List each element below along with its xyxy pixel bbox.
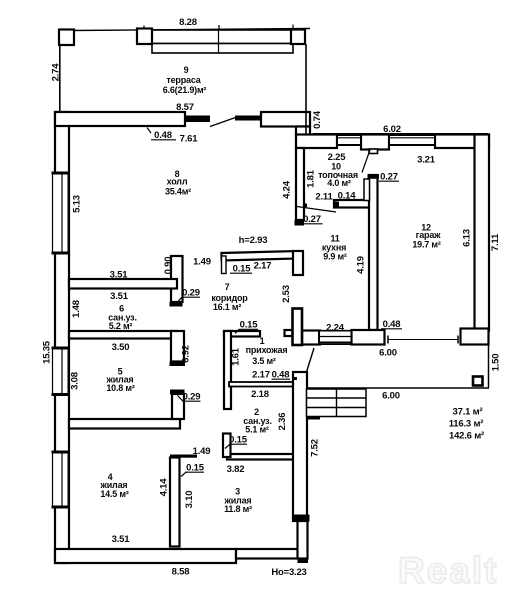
dim tick right [457, 336, 459, 344]
svg-text:3.10: 3.10 [184, 491, 195, 509]
wall wing top A [296, 135, 337, 149]
leader topochnaya door [362, 149, 371, 173]
svg-text:6.6(21.9)м²: 6.6(21.9)м² [163, 85, 207, 95]
svg-text:3.51: 3.51 [110, 291, 129, 302]
wall corridor top stub [293, 251, 303, 275]
svg-text:8.58: 8.58 [172, 567, 190, 578]
svg-text:гараж: гараж [416, 230, 441, 240]
svg-text:терраса: терраса [166, 75, 201, 85]
svg-text:5.2 м²: 5.2 м² [109, 321, 133, 331]
window left W2 [52, 347, 70, 397]
svg-text:37.1 м²: 37.1 м² [453, 407, 483, 418]
cap room5-room4 stub [170, 390, 185, 395]
wall hall top pillar [261, 112, 310, 127]
sill tick kitchen [285, 330, 293, 336]
wall wing pier [361, 135, 389, 150]
svg-text:3.08: 3.08 [70, 372, 81, 390]
wall room5-room4 divider [69, 419, 180, 429]
cap right exterior step [293, 515, 310, 522]
svg-text:4.19: 4.19 [356, 256, 367, 274]
svg-text:2.36: 2.36 [277, 413, 288, 431]
svg-text:1.48: 1.48 [71, 300, 82, 318]
terrace right edge line [305, 44, 307, 134]
svg-text:3.50: 3.50 [112, 342, 130, 353]
hinge tick boiler door [303, 204, 307, 208]
wall entry hall north [224, 331, 260, 337]
svg-text:142.6 м²: 142.6 м² [449, 431, 484, 442]
svg-text:холл: холл [167, 177, 188, 187]
wall room3 top [227, 454, 296, 460]
svg-text:7.61: 7.61 [180, 134, 199, 145]
svg-text:16.1 м²: 16.1 м² [213, 302, 241, 312]
wall step connector [296, 127, 310, 136]
svg-text:11.8 м²: 11.8 м² [224, 504, 252, 514]
svg-text:Но=3.23: Но=3.23 [271, 567, 306, 578]
cap boiler south end [334, 202, 339, 208]
svg-text:1.61: 1.61 [231, 347, 242, 366]
svg-text:2.17: 2.17 [254, 261, 272, 272]
steps south line2 [307, 407, 367, 409]
svg-text:4.0 м²: 4.0 м² [327, 178, 351, 188]
wall kitchen south right [352, 330, 385, 345]
svg-text:0.74: 0.74 [312, 110, 323, 129]
svg-text:6.00: 6.00 [382, 391, 400, 402]
terrace steps row2 [152, 44, 293, 54]
svg-text:6.13: 6.13 [462, 229, 473, 247]
window kitchen south [318, 330, 353, 345]
wall wc-room5 divider [69, 331, 177, 339]
wall left exterior [55, 112, 69, 563]
svg-text:прихожая: прихожая [246, 345, 288, 355]
window wing top 2 [388, 135, 436, 149]
wall bottom exterior [55, 549, 236, 563]
svg-text:9: 9 [184, 65, 189, 75]
wall wing top B [435, 135, 489, 149]
wall hall top [55, 112, 185, 126]
terrace steps row1 [152, 30, 291, 44]
terrace tick 2 [143, 26, 145, 35]
svg-text:3.82: 3.82 [227, 464, 245, 475]
column [473, 377, 483, 386]
svg-text:4.14: 4.14 [159, 478, 170, 497]
svg-text:0.90: 0.90 [163, 257, 174, 275]
door leaf boiler-garage [364, 179, 370, 201]
cap right exterior bottom [298, 558, 309, 564]
svg-text:Realt: Realt [398, 550, 498, 591]
svg-text:1.49: 1.49 [193, 257, 211, 268]
svg-text:2.11: 2.11 [315, 192, 333, 203]
terrace tick 3 [218, 25, 220, 34]
wall right exterior lower [298, 521, 308, 559]
wall boiler south [334, 200, 370, 208]
terrace steps divider [218, 30, 220, 53]
wall room3 top stub [223, 434, 231, 458]
wall garage south [461, 329, 489, 345]
svg-text:19.7 м²: 19.7 м² [412, 240, 440, 250]
door hall-terrace leaf2 [236, 116, 262, 120]
cap boiler west [295, 220, 305, 226]
wall right exterior below door [293, 372, 307, 521]
wing top dim line 6.02 [313, 133, 488, 135]
wall bottom exterior right step [236, 549, 300, 559]
svg-text:h=2.93: h=2.93 [239, 235, 268, 246]
svg-text:7.52: 7.52 [310, 439, 321, 457]
south terrace right edge [488, 345, 490, 388]
svg-text:7: 7 [225, 282, 230, 292]
svg-text:5.13: 5.13 [72, 195, 83, 213]
cap garage west top [368, 174, 380, 179]
south terrace south edge [307, 387, 490, 389]
svg-text:6.00: 6.00 [379, 348, 397, 359]
terrace pillar right [291, 30, 305, 45]
svg-text:5.1 м²: 5.1 м² [245, 425, 269, 435]
door hall-terrace leaf1 [185, 116, 210, 122]
svg-text:116.3 м²: 116.3 м² [449, 419, 484, 430]
steps south line1 [307, 397, 367, 399]
door hall-terrace swing [210, 118, 236, 127]
wall garage west [369, 175, 378, 330]
steps south outline [307, 389, 367, 417]
svg-text:2.18: 2.18 [251, 389, 269, 400]
window left W1 [52, 172, 70, 255]
svg-text:2.74: 2.74 [51, 63, 62, 82]
garage door dim line [388, 339, 458, 341]
svg-text:8.57: 8.57 [176, 102, 194, 113]
svg-text:2.53: 2.53 [281, 285, 292, 303]
wall boiler west [296, 148, 304, 220]
terrace top line [72, 29, 310, 31]
steps south divider [336, 389, 338, 417]
wall room4-room3 divider [170, 458, 180, 547]
cap corridor west seg1 [170, 302, 183, 307]
terrace left edge line [59, 45, 61, 112]
svg-text:3.51: 3.51 [112, 534, 131, 545]
svg-text:10.8 м²: 10.8 м² [106, 383, 134, 393]
cap wc-room5 stub [170, 362, 186, 367]
svg-text:3.5 м²: 3.5 м² [252, 356, 276, 366]
steps south cap [307, 417, 321, 420]
stub corridor top left [222, 256, 227, 274]
cap room4-room3 divider [170, 455, 197, 458]
wall kitchen south left [302, 331, 320, 345]
window wing top 1 [336, 135, 362, 149]
corner notch kitchen-garage [380, 331, 384, 335]
wall room1-room2 divider [229, 382, 293, 387]
wall entry hall west [224, 331, 231, 409]
svg-text:4.24: 4.24 [282, 180, 293, 199]
svg-text:3.51: 3.51 [110, 270, 129, 281]
svg-text:6.02: 6.02 [383, 124, 401, 135]
svg-text:6.92: 6.92 [181, 345, 192, 363]
svg-text:8.28: 8.28 [179, 17, 197, 28]
svg-text:15.35: 15.35 [42, 340, 53, 364]
jamb garage door top [369, 149, 378, 154]
wall garage right [475, 135, 490, 331]
svg-text:2.17: 2.17 [252, 370, 270, 381]
svg-text:14.5 м²: 14.5 м² [100, 489, 128, 499]
window left W3 [52, 451, 70, 509]
svg-text:35.4м²: 35.4м² [165, 187, 191, 197]
svg-text:1.50: 1.50 [491, 354, 502, 372]
svg-text:1.81: 1.81 [306, 169, 317, 188]
door entry swing [307, 348, 315, 372]
wall entry east [293, 309, 303, 346]
wall hall-wc divider [69, 279, 177, 289]
terrace pillar left [59, 30, 74, 46]
dim tick left [387, 336, 389, 344]
svg-text:9.9 м²: 9.9 м² [323, 252, 347, 262]
svg-text:3.21: 3.21 [417, 155, 436, 166]
terrace tick 4 [292, 25, 294, 34]
wall room5-room4 stub [172, 394, 184, 419]
svg-text:7.11: 7.11 [490, 233, 501, 251]
door boiler swing [297, 207, 336, 213]
wall corridor west seg1 [171, 256, 183, 302]
wall corridor top [221, 251, 294, 260]
svg-text:2.24: 2.24 [326, 323, 345, 334]
wall wc-room5 stub [171, 331, 184, 362]
terrace pillar mid [137, 29, 152, 45]
svg-text:1.49: 1.49 [193, 446, 211, 457]
